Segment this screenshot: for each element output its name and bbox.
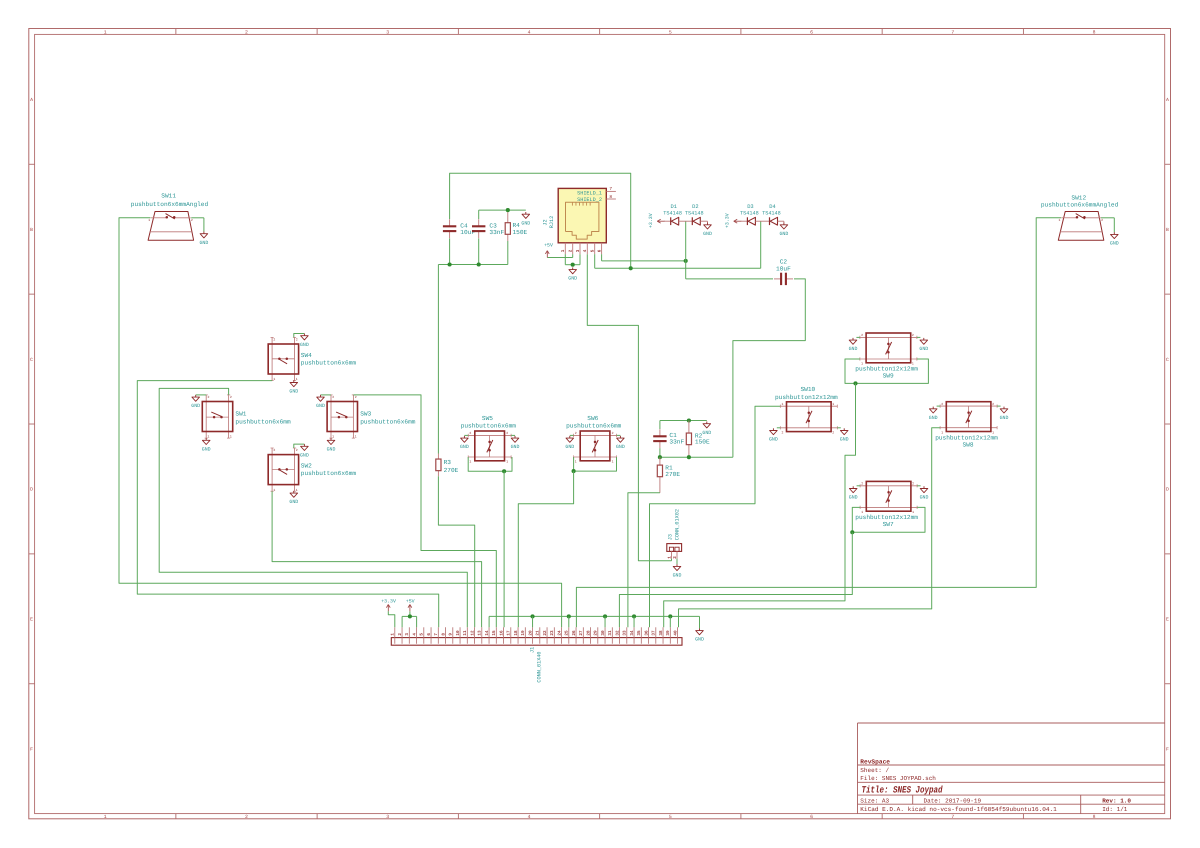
wire <box>679 428 941 628</box>
svg-text:F: F <box>30 746 33 752</box>
ground <box>565 436 574 450</box>
junction <box>687 418 691 422</box>
wire <box>576 218 1061 628</box>
wire <box>617 434 621 436</box>
wire <box>488 616 490 627</box>
svg-text:4: 4 <box>528 814 531 820</box>
svg-text:1: 1 <box>667 556 672 559</box>
junction <box>684 259 688 263</box>
wire <box>437 265 439 454</box>
capacitor C1 <box>653 429 684 448</box>
svg-text:16: 16 <box>499 630 504 636</box>
svg-text:GND: GND <box>920 495 929 501</box>
svg-text:2: 2 <box>296 338 298 342</box>
svg-text:10uF: 10uF <box>776 266 791 273</box>
svg-text:33nF: 33nF <box>489 229 504 236</box>
svg-text:38: 38 <box>659 630 664 636</box>
svg-text:Size: A3: Size: A3 <box>860 797 889 804</box>
wire <box>507 241 509 265</box>
wire <box>669 616 671 627</box>
ground <box>202 438 211 452</box>
svg-text:7: 7 <box>951 814 954 820</box>
ground <box>300 444 309 458</box>
svg-text:6: 6 <box>598 249 603 252</box>
wire <box>272 491 482 627</box>
svg-text:34: 34 <box>630 630 635 636</box>
pushbutton SW7 <box>855 481 918 528</box>
wire <box>191 217 204 219</box>
svg-text:File: SNES JOYPAD.sch: File: SNES JOYPAD.sch <box>860 775 936 782</box>
wire <box>479 209 526 211</box>
svg-text:19: 19 <box>521 630 526 636</box>
wire <box>845 359 928 383</box>
svg-text:GND: GND <box>929 415 938 421</box>
svg-text:GND: GND <box>849 495 858 501</box>
svg-text:13: 13 <box>478 630 483 636</box>
label R4 value <box>513 229 528 236</box>
svg-text:SW5: SW5 <box>482 415 493 422</box>
wire <box>755 220 769 222</box>
wire <box>760 221 762 268</box>
svg-text:GND: GND <box>1000 415 1009 421</box>
ground <box>1000 407 1009 421</box>
svg-text:33: 33 <box>623 630 628 636</box>
wire <box>601 254 603 261</box>
junction <box>572 469 576 473</box>
wire <box>119 218 562 628</box>
wire <box>449 238 451 264</box>
svg-text:TS4148: TS4148 <box>685 211 704 217</box>
wire <box>570 434 574 436</box>
wire <box>856 336 860 338</box>
svg-text:A: A <box>1166 97 1169 103</box>
svg-text:2: 2 <box>230 395 232 399</box>
svg-text:pushbutton6x6mm: pushbutton6x6mm <box>301 470 357 477</box>
svg-text:2: 2 <box>569 249 574 252</box>
svg-text:2: 2 <box>612 431 614 435</box>
ground <box>568 267 577 281</box>
svg-text:GND: GND <box>769 437 778 443</box>
svg-text:+3.3V: +3.3V <box>381 599 396 605</box>
junction <box>603 614 607 618</box>
wire <box>402 615 417 617</box>
junction <box>668 614 672 618</box>
ground <box>840 428 849 442</box>
svg-text:1: 1 <box>104 814 107 820</box>
ground <box>929 407 938 421</box>
svg-text:B: B <box>30 227 33 233</box>
svg-text:150E: 150E <box>513 229 528 236</box>
resistor R2 <box>686 421 710 458</box>
svg-text:36: 36 <box>644 630 649 636</box>
svg-text:2: 2 <box>673 556 678 559</box>
svg-text:1: 1 <box>506 459 508 463</box>
svg-text:2: 2 <box>398 633 403 636</box>
svg-text:31: 31 <box>608 630 613 636</box>
wire <box>468 457 512 471</box>
svg-text:2: 2 <box>208 395 210 399</box>
svg-text:Rev: 1.0: Rev: 1.0 <box>1102 797 1131 804</box>
svg-text:GND: GND <box>702 430 711 436</box>
wire <box>676 559 678 565</box>
capacitor C2 <box>774 259 793 285</box>
wire <box>937 405 941 407</box>
svg-text:TS4148: TS4148 <box>740 211 759 217</box>
svg-text:6: 6 <box>810 29 813 35</box>
svg-text:24: 24 <box>557 630 562 636</box>
pushbutton SW8 <box>935 402 998 449</box>
diode D1 <box>663 204 682 225</box>
wire <box>564 254 566 265</box>
pushbutton SW12 <box>1041 194 1119 240</box>
svg-text:GND: GND <box>300 452 309 458</box>
svg-text:pushbutton12x12mm: pushbutton12x12mm <box>855 366 918 373</box>
svg-text:+3.3V: +3.3V <box>648 213 654 228</box>
svg-text:CONN_01X02: CONN_01X02 <box>675 509 681 540</box>
svg-text:25: 25 <box>565 630 570 636</box>
wire <box>409 611 411 616</box>
ground <box>460 436 469 450</box>
svg-text:3: 3 <box>386 29 389 35</box>
svg-text:5: 5 <box>669 814 672 820</box>
junction <box>850 530 854 534</box>
junction <box>687 455 691 459</box>
wire <box>294 444 305 448</box>
connector J3 <box>667 509 682 559</box>
wire <box>628 493 660 628</box>
wire <box>777 427 781 429</box>
resistor R3 <box>436 454 459 477</box>
ground <box>616 436 625 450</box>
svg-text:GND: GND <box>202 446 211 452</box>
svg-text:GND: GND <box>521 220 530 226</box>
svg-text:2: 2 <box>245 29 248 35</box>
svg-text:2: 2 <box>832 430 834 434</box>
svg-text:+5V: +5V <box>544 243 553 249</box>
svg-text:GND: GND <box>779 231 788 237</box>
svg-text:270E: 270E <box>665 471 680 478</box>
svg-text:D3: D3 <box>747 204 753 210</box>
wire <box>159 388 467 627</box>
svg-text:pushbutton6x6mm: pushbutton6x6mm <box>461 423 517 430</box>
svg-text:6: 6 <box>427 633 432 636</box>
ground <box>920 486 929 500</box>
wire <box>594 254 596 268</box>
svg-text:8: 8 <box>441 633 446 636</box>
svg-text:4: 4 <box>583 249 588 252</box>
svg-text:1: 1 <box>832 402 834 406</box>
svg-text:5: 5 <box>420 633 425 636</box>
wire <box>604 616 606 627</box>
pushbutton SW6 <box>566 415 622 463</box>
svg-text:8: 8 <box>1093 814 1096 820</box>
ground <box>673 564 682 578</box>
wire <box>196 394 207 396</box>
svg-text:4: 4 <box>528 29 531 35</box>
junction <box>506 208 510 212</box>
ground <box>191 395 200 409</box>
svg-text:pushbutton6x6mmAngled: pushbutton6x6mmAngled <box>1041 201 1119 208</box>
svg-text:21: 21 <box>536 630 541 636</box>
wire <box>464 434 468 436</box>
junction <box>477 262 481 266</box>
svg-text:10: 10 <box>456 630 461 636</box>
wire <box>664 220 670 222</box>
svg-text:1: 1 <box>296 488 298 492</box>
wire <box>664 383 856 627</box>
svg-text:Title: SNES Joypad: Title: SNES Joypad <box>862 785 943 796</box>
wire <box>503 471 505 627</box>
svg-text:GND: GND <box>300 342 309 348</box>
pushbutton SW9 <box>855 333 918 380</box>
svg-text:pushbutton12x12mm: pushbutton12x12mm <box>935 434 998 441</box>
wire <box>857 485 861 487</box>
resistor R4 <box>505 210 520 241</box>
svg-text:2: 2 <box>861 333 863 337</box>
ground <box>316 395 325 409</box>
wire <box>478 238 480 264</box>
ground <box>300 334 309 348</box>
svg-text:C: C <box>1166 357 1169 363</box>
wire <box>650 406 781 627</box>
ground <box>289 380 298 394</box>
svg-text:GND: GND <box>199 240 208 246</box>
svg-text:18: 18 <box>514 630 519 636</box>
wire <box>547 257 572 259</box>
svg-text:GND: GND <box>840 437 849 443</box>
svg-text:1: 1 <box>1059 218 1061 222</box>
svg-text:1: 1 <box>612 459 614 463</box>
svg-text:pushbutton6x6mmAngled: pushbutton6x6mmAngled <box>131 201 209 208</box>
svg-text:1: 1 <box>208 435 210 439</box>
svg-text:37: 37 <box>652 630 657 636</box>
svg-text:8: 8 <box>609 194 612 200</box>
wire <box>659 421 661 430</box>
svg-text:1: 1 <box>391 633 396 636</box>
svg-text:GND: GND <box>616 444 625 450</box>
svg-text:20: 20 <box>528 630 533 636</box>
svg-text:32: 32 <box>615 630 620 636</box>
svg-text:2: 2 <box>1101 218 1103 222</box>
svg-text:A: A <box>30 97 33 103</box>
junction <box>408 614 412 618</box>
svg-text:2: 2 <box>469 431 471 435</box>
svg-text:22: 22 <box>543 630 548 636</box>
wire <box>837 427 841 429</box>
svg-text:1: 1 <box>104 29 107 35</box>
svg-text:2: 2 <box>575 431 577 435</box>
ground <box>289 491 298 505</box>
svg-text:270E: 270E <box>444 467 459 474</box>
power +5V <box>544 243 553 258</box>
diode D3 <box>740 204 759 225</box>
svg-text:3: 3 <box>405 633 410 636</box>
svg-text:R3: R3 <box>444 459 452 466</box>
connector J2 RJ12 <box>543 187 616 254</box>
svg-text:23: 23 <box>550 630 555 636</box>
svg-text:KiCad E.D.A. kicad no-vcs-fou: KiCad E.D.A. kicad no-vcs-found-1f6854f5… <box>860 806 1057 813</box>
pushbutton SW3 <box>327 395 416 439</box>
wire <box>574 457 617 471</box>
svg-text:TS4148: TS4148 <box>762 211 781 217</box>
svg-text:9: 9 <box>449 633 454 636</box>
svg-text:SW3: SW3 <box>360 411 371 418</box>
ground <box>769 428 778 442</box>
power +3.3V <box>724 213 741 228</box>
svg-text:2: 2 <box>191 218 193 222</box>
wire <box>568 616 570 627</box>
svg-text:RevSpace: RevSpace <box>860 758 890 765</box>
svg-text:SW11: SW11 <box>161 193 176 200</box>
svg-text:10uF: 10uF <box>460 229 475 236</box>
svg-text:GND: GND <box>191 403 200 409</box>
resistor R1 <box>657 457 680 493</box>
svg-text:GND: GND <box>919 346 928 352</box>
ground <box>695 628 704 642</box>
junction <box>567 614 571 618</box>
pushbutton SW4 <box>268 337 356 381</box>
svg-text:2: 2 <box>912 482 914 486</box>
svg-text:3: 3 <box>386 814 389 820</box>
svg-text:15: 15 <box>492 630 497 636</box>
svg-text:1: 1 <box>575 459 577 463</box>
svg-text:1: 1 <box>355 435 357 439</box>
wire <box>388 611 395 627</box>
junction <box>571 263 575 267</box>
svg-text:GND: GND <box>568 276 577 282</box>
svg-text:GND: GND <box>565 444 574 450</box>
wire <box>137 381 438 628</box>
wire <box>659 448 661 457</box>
svg-text:GND: GND <box>316 403 325 409</box>
wire <box>438 476 474 627</box>
svg-text:GND: GND <box>460 444 469 450</box>
svg-text:1: 1 <box>561 249 566 252</box>
junction <box>448 262 452 266</box>
svg-text:17: 17 <box>507 630 512 636</box>
svg-text:E: E <box>30 617 33 623</box>
svg-text:Date: 2017-09-19: Date: 2017-09-19 <box>924 797 982 804</box>
svg-text:SW4: SW4 <box>301 352 312 359</box>
diode D2 <box>685 204 704 225</box>
svg-text:7: 7 <box>434 633 439 636</box>
power +3.3V <box>648 213 665 228</box>
svg-text:29: 29 <box>594 630 599 636</box>
svg-text:GND: GND <box>327 446 336 452</box>
svg-text:12: 12 <box>470 630 475 636</box>
svg-text:D: D <box>1166 487 1169 493</box>
svg-text:SW6: SW6 <box>587 415 598 422</box>
wire <box>532 616 534 627</box>
wire <box>416 616 418 627</box>
svg-text:D1: D1 <box>671 204 677 210</box>
pushbutton SW5 <box>461 415 517 463</box>
svg-text:+3.3V: +3.3V <box>724 213 730 228</box>
svg-text:2: 2 <box>912 333 914 337</box>
wire <box>294 334 305 338</box>
wire <box>685 221 687 279</box>
svg-text:RJ12: RJ12 <box>549 216 555 228</box>
svg-text:GND: GND <box>849 346 858 352</box>
ground <box>511 436 520 450</box>
wire <box>203 218 205 232</box>
svg-text:11: 11 <box>463 630 468 636</box>
svg-text:F: F <box>1166 746 1169 752</box>
svg-text:pushbutton6x6mm: pushbutton6x6mm <box>566 423 622 430</box>
pushbutton SW2 <box>268 448 356 492</box>
wire <box>489 615 699 617</box>
title block <box>858 723 1165 814</box>
svg-text:5: 5 <box>591 249 596 252</box>
ground <box>702 422 711 436</box>
junction <box>853 381 857 385</box>
wire <box>565 264 580 266</box>
svg-text:4: 4 <box>412 633 417 636</box>
svg-text:pushbutton12x12mm: pushbutton12x12mm <box>775 394 838 401</box>
wire <box>917 336 921 338</box>
svg-text:GND: GND <box>695 637 704 643</box>
svg-text:D4: D4 <box>769 204 775 210</box>
svg-text:1: 1 <box>273 377 275 381</box>
svg-text:E: E <box>1166 617 1169 623</box>
svg-text:27: 27 <box>579 630 584 636</box>
svg-text:GND: GND <box>289 389 298 395</box>
wire <box>660 456 733 458</box>
svg-text:2: 2 <box>992 402 994 406</box>
svg-text:2: 2 <box>332 395 334 399</box>
pushbutton SW10 <box>775 386 838 435</box>
wire <box>660 420 707 422</box>
svg-text:5: 5 <box>669 29 672 35</box>
svg-text:2: 2 <box>355 395 357 399</box>
junction <box>531 614 535 618</box>
svg-text:pushbutton6x6mm: pushbutton6x6mm <box>360 419 416 426</box>
ground <box>919 338 928 352</box>
svg-text:D: D <box>30 487 33 493</box>
svg-text:GND: GND <box>511 444 520 450</box>
svg-text:SW2: SW2 <box>301 463 312 470</box>
wire <box>733 279 805 457</box>
svg-text:3: 3 <box>576 249 581 252</box>
wire <box>997 405 1001 407</box>
wire <box>852 507 925 532</box>
svg-text:SHIELD_2: SHIELD_2 <box>577 197 602 203</box>
svg-text:1: 1 <box>332 435 334 439</box>
wire <box>595 267 761 269</box>
wire <box>572 254 574 257</box>
svg-text:J3: J3 <box>668 534 674 540</box>
svg-text:SW9: SW9 <box>883 373 894 380</box>
svg-text:B: B <box>1166 227 1169 233</box>
ground <box>1110 232 1119 246</box>
svg-text:30: 30 <box>601 630 606 636</box>
svg-text:CONN_01X40: CONN_01X40 <box>537 651 543 682</box>
wire <box>579 254 581 265</box>
svg-text:GND: GND <box>289 499 298 505</box>
wire <box>353 395 496 627</box>
svg-text:SW7: SW7 <box>883 521 894 528</box>
ground <box>849 486 858 500</box>
svg-text:40: 40 <box>673 630 678 636</box>
svg-text:2: 2 <box>296 448 298 452</box>
pushbutton SW11 <box>131 193 209 241</box>
wire <box>619 532 852 627</box>
ground <box>779 221 788 237</box>
power +3.3V <box>381 599 396 612</box>
svg-text:14: 14 <box>485 630 490 636</box>
svg-text:1: 1 <box>469 459 471 463</box>
svg-text:GND: GND <box>703 231 712 237</box>
